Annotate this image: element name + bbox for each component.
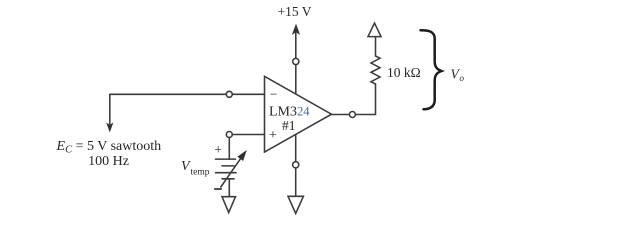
- svg-text:+: +: [269, 128, 277, 143]
- svg-text:10 kΩ: 10 kΩ: [387, 65, 421, 80]
- svg-text:100 Hz: 100 Hz: [88, 154, 129, 169]
- svg-text:+: +: [214, 142, 222, 157]
- svg-text:+15 V: +15 V: [278, 4, 312, 19]
- svg-text:−: −: [270, 86, 278, 101]
- svg-text:V: V: [181, 159, 191, 174]
- svg-text:temp: temp: [191, 168, 210, 178]
- svg-text:#1: #1: [282, 118, 296, 133]
- svg-text:o: o: [460, 73, 465, 83]
